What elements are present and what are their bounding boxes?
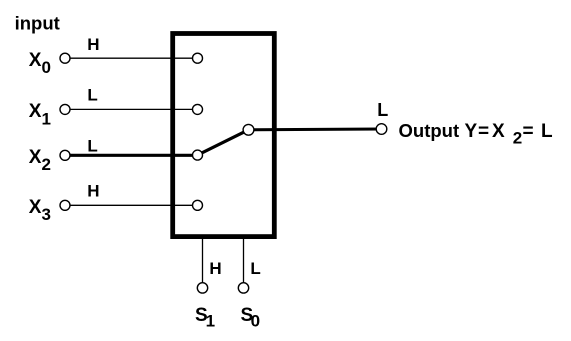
svg-text:L: L [87, 86, 97, 105]
svg-text:L: L [377, 100, 388, 120]
svg-text:Output: Output [399, 120, 460, 141]
svg-text:2: 2 [513, 129, 522, 148]
terminal X1 [60, 104, 70, 114]
terminal S1 [197, 283, 207, 293]
switch pole node [243, 124, 254, 135]
svg-text:L: L [87, 137, 97, 156]
svg-text:0: 0 [251, 312, 260, 331]
contact X0 inside box [193, 53, 203, 63]
svg-text:1: 1 [42, 109, 51, 128]
mux box [173, 34, 275, 237]
contact X2 inside box [193, 150, 203, 160]
svg-text:input: input [15, 12, 60, 33]
svg-text:0: 0 [42, 58, 51, 77]
wire X3 to mux contact [65, 204, 198, 206]
svg-text:1: 1 [206, 312, 215, 331]
svg-text:X: X [29, 101, 42, 122]
svg-text:H: H [209, 259, 221, 278]
wire X2 to mux contact (selected, bold) [65, 154, 198, 157]
wire output (bold) [249, 128, 382, 132]
svg-text:L: L [541, 121, 553, 142]
wire select S1 [202, 239, 204, 283]
svg-text:=: = [478, 121, 489, 142]
svg-text:X: X [29, 50, 42, 71]
terminal S0 [238, 283, 248, 293]
wire X1 to mux contact [65, 108, 198, 110]
output terminal [376, 124, 387, 135]
svg-text:H: H [87, 181, 99, 200]
terminal X2 [60, 150, 70, 160]
svg-text:H: H [87, 35, 99, 54]
wire X0 to mux contact [65, 57, 198, 59]
svg-text:2: 2 [42, 155, 51, 174]
switch arm from X2 contact to pole [198, 130, 249, 155]
contact X1 inside box [193, 104, 203, 114]
svg-text:Y: Y [465, 121, 478, 142]
svg-text:3: 3 [42, 205, 51, 224]
wire select S0 [243, 239, 245, 283]
svg-text:=: = [523, 121, 534, 142]
contact X3 inside box [193, 200, 203, 210]
svg-text:X: X [492, 121, 505, 142]
svg-text:X: X [29, 147, 42, 168]
terminal X0 [60, 53, 70, 63]
svg-text:X: X [29, 197, 42, 218]
svg-text:L: L [250, 259, 260, 278]
terminal X3 [60, 200, 70, 210]
